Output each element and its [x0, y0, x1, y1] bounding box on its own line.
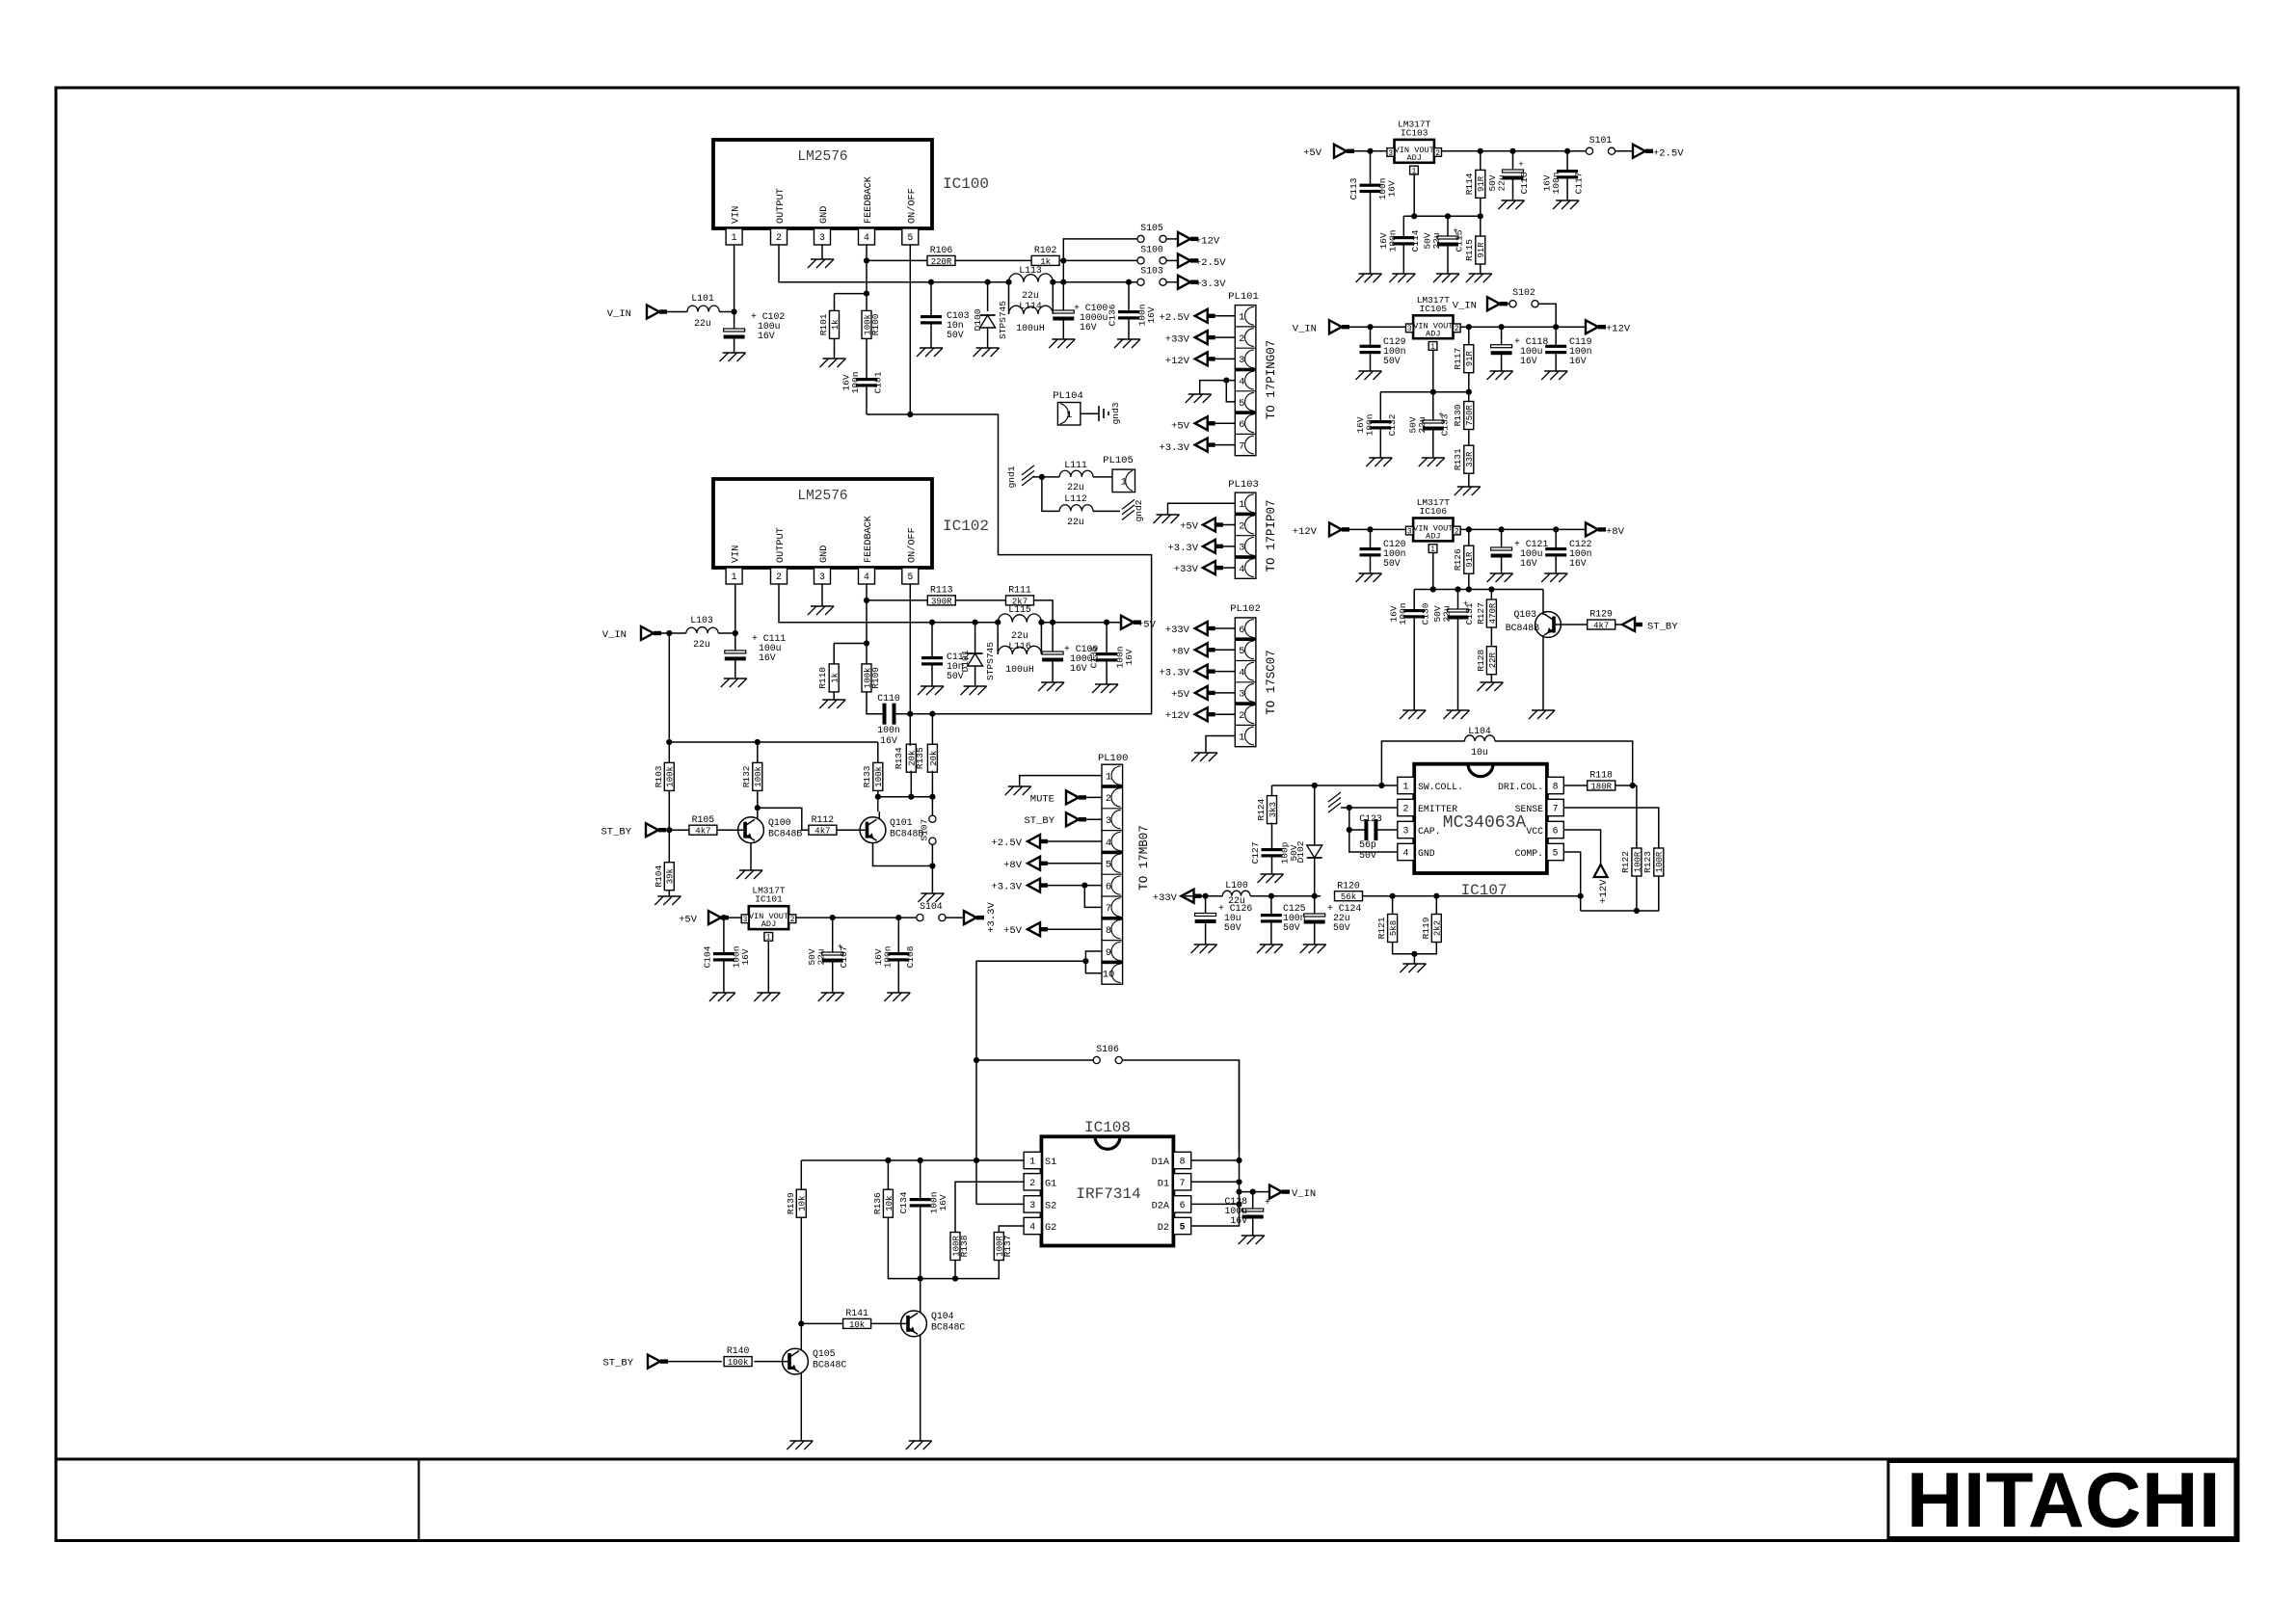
svg-text:ADJ: ADJ	[1426, 532, 1440, 542]
svg-text:+12V: +12V	[1165, 356, 1190, 367]
capacitor C103	[921, 282, 970, 348]
ground (R104)	[654, 896, 681, 905]
svg-text:2: 2	[1435, 149, 1440, 158]
resistor R109	[862, 664, 881, 692]
node +12V (PL101 pin3)	[1165, 352, 1236, 367]
node ST_BY input	[601, 823, 666, 838]
ground (IC101 ADJ)	[754, 993, 780, 1001]
wire S106 vert to S2	[976, 1060, 1024, 1204]
ground (C107)	[818, 993, 844, 1001]
svg-text:IC107: IC107	[1461, 882, 1508, 899]
svg-text:V_IN: V_IN	[602, 629, 627, 641]
svg-text:C104: C104	[703, 945, 713, 968]
svg-text:+3.3V: +3.3V	[991, 882, 1022, 893]
svg-text:C123: C123	[1359, 813, 1382, 824]
svg-text:1k: 1k	[1040, 257, 1051, 267]
connector PL105	[1103, 455, 1135, 492]
svg-text:+5V: +5V	[1171, 421, 1190, 433]
ground (C130)	[1400, 710, 1426, 719]
svg-text:R111: R111	[1008, 585, 1031, 596]
svg-text:5: 5	[1239, 398, 1244, 410]
wire R112 to Q101 base	[837, 829, 866, 831]
wire feedback divider	[835, 260, 870, 310]
svg-text:2: 2	[1106, 793, 1111, 805]
svg-text:2: 2	[1239, 333, 1244, 345]
wire ST_BY line	[658, 790, 689, 862]
wire L103 to IC102 pin1	[718, 584, 738, 636]
wire IC106 output rail	[1460, 526, 1586, 532]
svg-text:V_IN: V_IN	[1292, 1188, 1316, 1200]
capacitor C123	[1349, 813, 1398, 861]
svg-text:2: 2	[790, 916, 795, 924]
svg-text:100n: 100n	[1387, 230, 1398, 253]
wire Q103 collector	[1542, 590, 1544, 615]
ground (C114)	[1389, 274, 1415, 282]
svg-text:5k8: 5k8	[1389, 920, 1399, 936]
svg-text:3: 3	[1239, 543, 1244, 554]
svg-text:FEEDBACK: FEEDBACK	[864, 515, 874, 563]
svg-text:ADJ: ADJ	[761, 919, 776, 929]
op-amp IC103 LM317T	[1387, 119, 1442, 175]
svg-text:MC34063A: MC34063A	[1443, 813, 1527, 833]
svg-text:39k: 39k	[666, 868, 676, 884]
wire L112 to gnd2	[1093, 510, 1120, 512]
svg-text:R112: R112	[812, 814, 835, 825]
ground gnd2	[1122, 499, 1144, 521]
wire ON/OFF control loop	[867, 414, 1152, 714]
wire IC108 G1	[955, 1182, 1024, 1232]
svg-text:C116: C116	[1519, 172, 1530, 194]
svg-text:R121: R121	[1376, 917, 1387, 939]
node +3.3V (PL101 pin7)	[1159, 439, 1235, 454]
IC107 pin 5 COMP.	[1515, 843, 1564, 860]
IC108 pin 1 S1	[1024, 1152, 1056, 1168]
ground (PL102 pin1)	[1191, 753, 1217, 761]
svg-text:S103: S103	[1140, 266, 1163, 277]
transistor Q101 BC848B	[860, 817, 923, 843]
svg-text:R139: R139	[786, 1192, 796, 1214]
ground (C126)	[1191, 945, 1217, 953]
svg-text:8: 8	[1180, 1157, 1186, 1167]
svg-text:PL104: PL104	[1053, 390, 1083, 402]
svg-text:L113: L113	[1019, 265, 1042, 276]
inductor L113	[1009, 265, 1054, 301]
transistor Q105 BC848C	[783, 1348, 847, 1374]
svg-text:+2.5V: +2.5V	[1159, 312, 1189, 324]
op-amp IC105 LM317T	[1406, 295, 1461, 352]
svg-text:V_IN: V_IN	[607, 308, 631, 320]
wire Q101 emitter	[873, 843, 936, 893]
wire IC100 output rail	[779, 245, 1137, 282]
wire Q103 base to R129	[1554, 624, 1588, 625]
capacitor C121	[1491, 529, 1549, 573]
svg-text:HITACHI: HITACHI	[1907, 1457, 2221, 1544]
svg-text:CAP.: CAP.	[1418, 826, 1441, 837]
svg-text:IC106: IC106	[1420, 506, 1448, 517]
resistor R102	[1031, 245, 1059, 267]
svg-text:IC101: IC101	[755, 894, 783, 905]
svg-text:33R: 33R	[1465, 451, 1475, 467]
svg-text:S104: S104	[920, 901, 943, 912]
wire IC103 ADJ row	[1403, 174, 1483, 236]
svg-text:50V: 50V	[1224, 922, 1241, 933]
wire Q105 emitter	[800, 1372, 802, 1441]
op-amp IC101 LM317T	[741, 886, 796, 943]
resistor R110	[817, 664, 841, 692]
svg-text:VIN: VIN	[732, 545, 742, 563]
IC107 pin 3 CAP.	[1398, 821, 1441, 838]
svg-text:16V: 16V	[1387, 180, 1398, 197]
svg-text:4: 4	[1239, 376, 1244, 387]
capacitor C126	[1195, 896, 1253, 945]
svg-text:PL103: PL103	[1228, 479, 1259, 491]
svg-text:180R: 180R	[1590, 782, 1612, 791]
svg-text:2: 2	[1403, 804, 1409, 814]
svg-text:IC103: IC103	[1401, 127, 1428, 138]
svg-text:Q101: Q101	[890, 817, 913, 828]
svg-text:22u: 22u	[1228, 895, 1245, 906]
svg-text:L116: L116	[1008, 641, 1031, 652]
svg-text:+12V: +12V	[1598, 879, 1610, 904]
svg-text:4: 4	[1239, 667, 1244, 678]
wire V_IN to L103	[654, 630, 686, 636]
ground gnd3	[1099, 402, 1121, 424]
wire Q104 emitter	[920, 1335, 921, 1441]
ground (C119)	[1541, 371, 1567, 380]
svg-text:ST_BY: ST_BY	[1647, 622, 1678, 633]
svg-text:2k2: 2k2	[1433, 920, 1443, 936]
ground (C112)	[918, 686, 944, 695]
svg-text:4: 4	[1239, 564, 1244, 575]
svg-text:50V: 50V	[1383, 356, 1401, 366]
svg-text:100uH: 100uH	[1016, 323, 1045, 333]
IC100 pin 3 GND	[814, 206, 831, 245]
svg-text:EMITTER: EMITTER	[1418, 804, 1457, 814]
IC108 pin 2 G1	[1024, 1174, 1056, 1190]
svg-text:+: +	[1518, 160, 1523, 170]
wire PL103 pin1 to ground	[1168, 503, 1236, 515]
svg-text:22u: 22u	[1011, 630, 1028, 641]
node ST_BY input (Q105)	[602, 1355, 721, 1370]
svg-text:+2.5V: +2.5V	[1653, 147, 1684, 159]
svg-text:ST_BY: ST_BY	[601, 827, 631, 838]
svg-text:16V: 16V	[758, 331, 775, 341]
svg-text:S106: S106	[1096, 1044, 1119, 1054]
svg-text:4k7: 4k7	[695, 827, 710, 837]
svg-text:+3.3V: +3.3V	[1159, 668, 1189, 679]
svg-text:+5V: +5V	[1171, 689, 1190, 701]
resistor R104	[654, 863, 676, 891]
diode D102	[1295, 785, 1322, 896]
svg-text:+2.5V: +2.5V	[1195, 257, 1226, 269]
ground (C131)	[1444, 710, 1470, 719]
wire S102 to +12V rail	[1538, 304, 1556, 327]
node MUTE input	[1030, 790, 1102, 805]
svg-text:390R: 390R	[931, 597, 952, 606]
ground (IC100 GND pin)	[808, 259, 834, 268]
svg-text:10k: 10k	[885, 1196, 894, 1211]
svg-text:R141: R141	[845, 1308, 868, 1318]
svg-text:16V: 16V	[1520, 356, 1537, 366]
svg-text:G2: G2	[1045, 1223, 1056, 1234]
ground (R121/R119)	[1400, 964, 1426, 972]
svg-text:R138: R138	[959, 1235, 970, 1257]
svg-text:100uH: 100uH	[1005, 664, 1034, 675]
wire IC102 output rail	[779, 584, 1121, 623]
svg-text:IC105: IC105	[1420, 304, 1448, 314]
svg-text:1: 1	[1106, 771, 1111, 783]
resistor R140	[724, 1345, 788, 1368]
transistor Q104 BC848C	[901, 1311, 966, 1337]
node +8V output (IC106)	[1586, 522, 1625, 538]
svg-text:ON/OFF: ON/OFF	[906, 188, 918, 224]
svg-text:LM2576: LM2576	[797, 489, 847, 504]
wire gnd1 to L111	[1033, 474, 1059, 480]
svg-text:BC848B: BC848B	[768, 829, 802, 839]
ground (C128)	[1239, 1236, 1265, 1244]
wire PL100 pin1 to ground	[1020, 776, 1102, 786]
svg-text:ST_BY: ST_BY	[602, 1358, 633, 1370]
svg-text:G1: G1	[1045, 1179, 1056, 1189]
svg-text:C130: C130	[1421, 602, 1431, 625]
ground (C109)	[1038, 682, 1064, 691]
wire +12V to IC106	[1342, 526, 1406, 532]
wire IC106 ADJ row	[1414, 553, 1543, 610]
IC107 pin 2 EMITTER	[1398, 799, 1457, 815]
IC107 pin 6 VCC	[1526, 821, 1563, 838]
svg-text:C101: C101	[873, 371, 884, 393]
svg-text:2: 2	[776, 232, 782, 243]
svg-text:56p: 56p	[1359, 839, 1376, 850]
svg-text:100k: 100k	[874, 766, 884, 787]
node +12V (IC106 input)	[1293, 522, 1349, 538]
svg-text:R134: R134	[894, 747, 904, 769]
capacitor C130	[1389, 602, 1431, 710]
svg-text:6: 6	[1239, 625, 1244, 636]
node +2.5V output (IC103)	[1615, 145, 1685, 160]
transistor Q100 BC848B	[738, 817, 803, 843]
wire PL101 pins 4-5 to ground	[1200, 378, 1236, 402]
svg-text:R126: R126	[1453, 548, 1463, 571]
svg-text:FEEDBACK: FEEDBACK	[864, 175, 874, 224]
svg-text:BC848C: BC848C	[813, 1360, 846, 1370]
IC107 pin 1 SW.COLL.	[1398, 777, 1463, 793]
resistor R100	[862, 310, 881, 338]
wire Q100 collector	[755, 790, 761, 820]
svg-text:16V: 16V	[1230, 1215, 1247, 1226]
svg-text:1: 1	[1239, 499, 1244, 511]
svg-text:R115: R115	[1464, 239, 1475, 261]
op-amp IC107 MC34063A box	[1414, 764, 1547, 899]
svg-text:V_IN: V_IN	[1453, 301, 1477, 312]
capacitor C115	[1423, 216, 1465, 274]
node V_IN (IC100 input)	[607, 306, 667, 321]
svg-text:91R: 91R	[1477, 175, 1486, 192]
wire Q104 collector	[920, 1279, 921, 1313]
svg-text:3: 3	[1106, 815, 1111, 827]
svg-text:Q104: Q104	[931, 1311, 954, 1321]
svg-text:L112: L112	[1064, 493, 1087, 504]
svg-text:6: 6	[1106, 881, 1111, 892]
svg-text:R117: R117	[1453, 348, 1463, 370]
svg-text:750R: 750R	[1465, 405, 1475, 426]
resistor R122	[1620, 848, 1642, 876]
resistor R111	[1006, 585, 1034, 607]
svg-text:100k: 100k	[666, 766, 676, 787]
capacitor C134	[898, 1160, 948, 1279]
wire L100 to R120	[1250, 893, 1321, 899]
svg-text:+5V: +5V	[679, 915, 698, 926]
svg-text:50V: 50V	[1333, 922, 1350, 933]
svg-text:22u: 22u	[1417, 416, 1428, 433]
title bar	[56, 1459, 2238, 1541]
svg-text:16V: 16V	[1146, 306, 1157, 323]
svg-text:D100: D100	[973, 308, 983, 331]
svg-text:GND: GND	[819, 545, 830, 563]
svg-text:50V: 50V	[1359, 850, 1376, 861]
resistor R123	[1642, 848, 1665, 876]
svg-text:L101: L101	[691, 293, 714, 304]
node +5V (PL100 pin8)	[1003, 922, 1102, 937]
node +3.3V (PL102 pin4)	[1159, 665, 1235, 679]
wire R133-R134-R135 node	[875, 771, 936, 800]
switch S102	[1509, 287, 1539, 308]
svg-text:R100: R100	[870, 313, 881, 335]
resistor R138	[950, 1233, 970, 1261]
wire IC108 S1 line	[801, 1157, 1024, 1163]
switch S101	[1586, 135, 1615, 156]
svg-text:4: 4	[864, 572, 869, 582]
node +5V (IC102 output)	[1121, 616, 1157, 631]
svg-text:R104: R104	[654, 865, 664, 888]
node +33V (PL101 pin2)	[1165, 331, 1236, 345]
IC100 pin 4 FEEDBACK	[859, 175, 875, 245]
capacitor C102	[724, 311, 786, 353]
svg-text:22u: 22u	[694, 318, 711, 329]
svg-text:BC848C: BC848C	[931, 1322, 965, 1333]
resistor R124	[1256, 785, 1278, 824]
wire V_IN to L101	[659, 311, 687, 313]
svg-text:10k: 10k	[798, 1196, 808, 1211]
svg-text:R105: R105	[692, 814, 715, 825]
svg-text:100n: 100n	[882, 946, 893, 969]
ground (C116)	[1499, 200, 1525, 209]
wire pin8 node to R122	[1636, 785, 1638, 848]
svg-text:5: 5	[1180, 1222, 1186, 1233]
resistor R103	[654, 742, 676, 790]
wire IC107 pin7 to R123	[1563, 808, 1659, 848]
wire IC107 pin2 to slashed ground	[1328, 792, 1398, 812]
ground (C124)	[1300, 945, 1326, 953]
ground (C111)	[721, 678, 747, 687]
svg-text:8: 8	[1106, 925, 1111, 937]
svg-text:+: +	[1265, 1197, 1270, 1208]
svg-text:4: 4	[1106, 838, 1111, 849]
svg-text:+3.3V: +3.3V	[986, 902, 998, 933]
svg-text:MUTE: MUTE	[1030, 793, 1055, 805]
IC107 pin 8 DRI.COL.	[1498, 777, 1563, 793]
svg-text:100n: 100n	[1364, 414, 1375, 437]
svg-text:TO 17SC07: TO 17SC07	[1265, 650, 1278, 715]
svg-text:3: 3	[1239, 355, 1244, 366]
wire IC102 pin5 ON/OFF	[909, 584, 911, 746]
svg-text:6: 6	[1180, 1200, 1186, 1211]
ground (Q101/S107)	[918, 893, 944, 902]
wire IC107 pin5 COMP	[1563, 852, 1580, 911]
op-amp IC108 IRF7314 box	[1041, 1119, 1173, 1246]
ground (Q105)	[787, 1441, 813, 1450]
svg-text:100R: 100R	[1633, 851, 1642, 872]
node IC102 rail dots	[929, 620, 1109, 625]
ground (Q103)	[1529, 710, 1555, 719]
svg-text:R137: R137	[1002, 1236, 1013, 1258]
wire Q100 collector to R112	[758, 808, 810, 830]
svg-text:3: 3	[1029, 1200, 1035, 1211]
node V_IN (IC102 input)	[602, 626, 661, 641]
ground (C121)	[1487, 573, 1513, 582]
svg-text:+33V: +33V	[1174, 564, 1199, 575]
svg-text:C117: C117	[1574, 173, 1585, 195]
svg-text:50V: 50V	[1383, 558, 1401, 569]
resistor R131	[1453, 430, 1475, 488]
svg-text:PL102: PL102	[1230, 603, 1261, 615]
ground (C129)	[1356, 371, 1382, 380]
node +5V (PL102 pin3)	[1171, 686, 1235, 701]
svg-text:C108: C108	[905, 945, 916, 968]
IC108 pin 6 D2A	[1152, 1196, 1191, 1212]
wire R120 to COMP line	[1363, 893, 1584, 899]
svg-text:IC108: IC108	[1084, 1119, 1131, 1136]
wire IC105 ADJ row	[1380, 350, 1472, 420]
op-amp IC100 LM2576 regulator box	[713, 140, 989, 228]
ground (C108)	[884, 993, 910, 1001]
svg-text:Q100: Q100	[768, 817, 791, 828]
resistor R133	[862, 742, 884, 790]
wire Q103 emitter	[1542, 635, 1544, 710]
svg-text:6: 6	[1553, 826, 1559, 837]
svg-text:DRI.COL.: DRI.COL.	[1498, 782, 1543, 792]
svg-text:S101: S101	[1589, 135, 1613, 146]
svg-text:+12V: +12V	[1165, 710, 1190, 722]
node +33V (PL103 pin4)	[1174, 561, 1236, 575]
svg-text:R128: R128	[1476, 650, 1486, 672]
inductor L103	[686, 615, 718, 650]
capacitor C122	[1545, 529, 1591, 573]
capacitor C133	[1407, 392, 1450, 458]
svg-text:S107: S107	[919, 819, 929, 841]
svg-text:R140: R140	[727, 1345, 750, 1356]
svg-text:16V: 16V	[1070, 663, 1087, 674]
ground gnd1	[1006, 466, 1034, 489]
svg-text:91R: 91R	[1477, 242, 1486, 258]
svg-text:R133: R133	[862, 765, 872, 787]
IC100 pin 1 VIN	[726, 206, 742, 245]
IC107 pin 4 GND	[1398, 843, 1435, 860]
node +8V (PL100 pin5)	[1003, 857, 1102, 871]
node +5V (PL101 pin6)	[1171, 416, 1235, 432]
svg-text:2: 2	[1029, 1178, 1035, 1188]
svg-text:Q105: Q105	[813, 1348, 836, 1359]
wire R105 to Q100 base	[717, 829, 743, 831]
svg-text:1: 1	[732, 572, 737, 582]
svg-text:S100: S100	[1140, 244, 1163, 254]
svg-text:L114: L114	[1019, 301, 1042, 311]
resistor R117	[1453, 327, 1475, 373]
wire IC100 pin3 to ground	[821, 245, 823, 259]
svg-text:OUTPUT: OUTPUT	[776, 527, 787, 563]
capacitor C128	[1224, 1189, 1270, 1237]
ground (C127)	[1258, 874, 1284, 883]
